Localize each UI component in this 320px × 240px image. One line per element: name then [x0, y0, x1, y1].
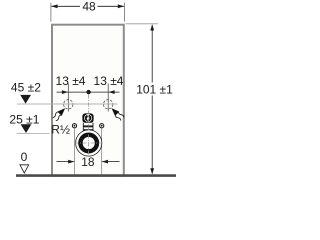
dimension 48: left arrowhead: [51, 4, 57, 8]
flush bend: centre gap stripe: [87, 114, 89, 122]
connector tube: upper band: [83, 125, 93, 127]
water connection left: dashed circle: [64, 100, 73, 109]
connector tube: lower band: [83, 129, 93, 131]
connector tube: right wall: [92, 123, 94, 131]
dimension 13: line across: [57, 91, 120, 93]
dimension 101: bottom arrowhead: [150, 168, 154, 174]
dimension 13: shared center dot: [86, 90, 90, 94]
dimension 13: left outside arrowhead: [62, 90, 68, 94]
svg-text:101 ±1: 101 ±1: [136, 82, 173, 96]
svg-text:0: 0: [21, 150, 28, 164]
svg-text:18: 18: [81, 155, 95, 169]
supply arrow left: hatched break symbol: [52, 106, 67, 121]
svg-text:R½: R½: [51, 123, 70, 137]
svg-text:13 ±4: 13 ±4: [94, 74, 124, 88]
water connection right: extension/centre line: [107, 84, 109, 112]
dimension 101: vertical line lower segment: [151, 96, 153, 174]
connector tube: left wall: [82, 123, 84, 131]
dimension 101: vertical line upper segment: [151, 25, 153, 82]
flush bend: centre diamond: [86, 116, 90, 122]
dimension 18: right extension line: [101, 128, 103, 174]
dimension 101: extension line from module top right corner: [126, 23, 158, 25]
dimension 18: left line with outside arrowhead: [56, 161, 74, 163]
fixing point left: circle with dot: [72, 124, 76, 128]
outlet flange: horizontal crosshair: [75, 142, 104, 144]
fixing point right: circle with dot: [100, 124, 104, 128]
flush bend: black rounded housing: [82, 113, 93, 122]
dimension 18: right line with outside arrowhead: [102, 161, 120, 163]
outlet flange: outer circle: [76, 130, 102, 156]
floor line: [16, 174, 176, 177]
svg-text:45 ±2: 45 ±2: [11, 80, 41, 94]
dimension 48: line left segment: [51, 5, 80, 7]
module cabinet outline: [52, 25, 124, 176]
centre axis dash-dot vertical line: [88, 95, 90, 159]
level 45: line: [17, 103, 118, 105]
dimension 13: right outside arrowhead: [109, 90, 115, 94]
dimension 48: right arrowhead: [118, 4, 124, 8]
level 25: line: [17, 132, 50, 134]
water connection left: extension/centre line: [67, 84, 69, 112]
flush bend: inner ring: [86, 116, 91, 121]
dimension 18: left extension line: [74, 128, 76, 174]
outlet flange: thick seal ring: [80, 135, 97, 152]
level 45: filled triangle marker: [20, 95, 31, 104]
level 0: open triangle marker: [20, 165, 29, 173]
svg-text:13 ±4: 13 ±4: [56, 74, 86, 88]
svg-text:48: 48: [82, 0, 96, 14]
supply arrow right: hatched break symbol: [109, 106, 124, 121]
dimension 101: top arrowhead: [150, 24, 154, 30]
level 25: filled triangle marker: [21, 124, 32, 133]
flush bend: white pipe opening: [84, 114, 92, 122]
dimension 48: right extension line: [123, 3, 125, 22]
dimension 48: left extension line: [50, 3, 52, 22]
dimension 48: line right segment: [98, 5, 125, 7]
water connection right: dashed circle: [104, 100, 113, 109]
